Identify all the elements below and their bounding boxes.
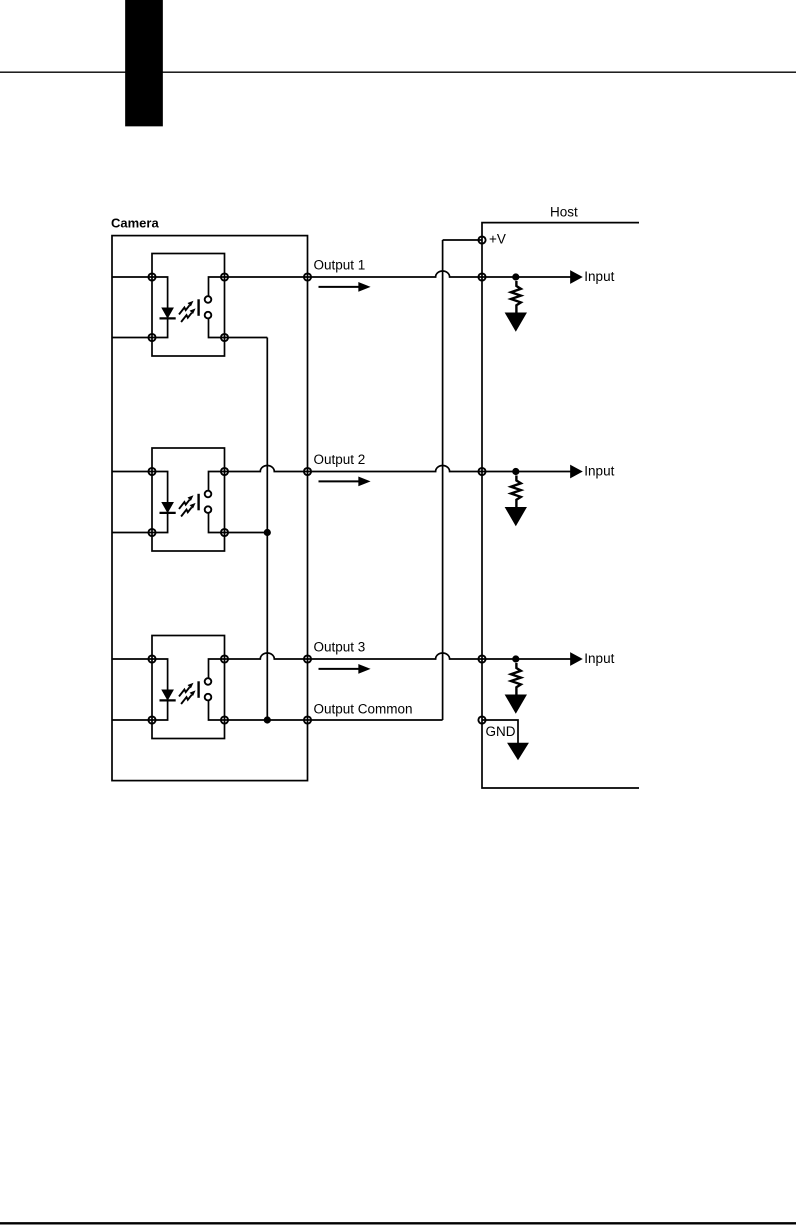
Input 1 arrowhead — [571, 272, 581, 283]
Input 2 arrowhead — [571, 466, 581, 477]
+V bus wire (vertical) — [442, 240, 444, 720]
U1 LED branch wire — [152, 277, 168, 338]
Output 1 signal wire — [225, 271, 573, 277]
Output 1 direction arrow — [319, 286, 361, 288]
svg-text:Output 3: Output 3 — [314, 639, 366, 654]
terminal Output 1 (camera edge) — [304, 273, 311, 280]
U1 photoreceiver bar — [197, 299, 199, 316]
node junction dot row 1 — [512, 273, 519, 280]
U2 LED cathode bar — [160, 512, 176, 514]
ground arrow R3 — [506, 695, 525, 712]
node junction dot common/U3 — [264, 716, 271, 723]
U3 light arrow 1 — [179, 687, 190, 696]
terminal Output 2 (camera edge) — [304, 468, 311, 475]
node junction dot row 2 — [512, 468, 519, 475]
U3 photoreceiver bar — [197, 681, 199, 698]
svg-text:Input: Input — [584, 464, 614, 479]
U3 cathode-side wire (camera edge to pin) — [112, 719, 152, 721]
optocoupler U1 body box — [152, 254, 225, 357]
Output 3 direction arrow — [319, 668, 361, 670]
svg-text:+V: +V — [489, 232, 506, 247]
node junction dot row 3 — [512, 655, 519, 662]
U1 cathode-side wire (camera edge to pin) — [112, 337, 152, 339]
optocoupler U3 body box — [152, 636, 225, 739]
U1 pin terminal left-bottom — [148, 334, 155, 341]
U3 pin terminal right-top — [221, 655, 228, 662]
svg-text:Output 1: Output 1 — [314, 257, 366, 272]
U2 light arrow 1 — [179, 500, 190, 509]
terminal Input 2 (host edge) — [478, 468, 485, 475]
output-common bus wire (vertical) — [266, 338, 268, 721]
U1 LED triangle — [163, 308, 173, 317]
Output Common wire — [225, 719, 443, 721]
U3 contact wire lower — [209, 701, 225, 720]
svg-text:Output 2: Output 2 — [314, 452, 366, 467]
U3 LED triangle — [163, 690, 173, 699]
terminal Output Common (camera edge) — [304, 716, 311, 723]
U1 pin terminal left-top — [148, 273, 155, 280]
U2 LED branch wire — [152, 472, 168, 533]
Output 2 direction arrow — [319, 480, 361, 482]
U2 LED triangle — [163, 503, 173, 512]
resistor R2 — [511, 476, 521, 508]
Output 3 signal wire — [225, 653, 573, 659]
camera enclosure box — [112, 236, 308, 781]
svg-text:Input: Input — [584, 269, 614, 284]
U1 LED cathode bar — [160, 317, 176, 319]
U3 light arrow 2 — [181, 695, 192, 704]
page header rule — [0, 71, 796, 73]
terminal Output 3 (camera edge) — [304, 655, 311, 662]
U1 pin terminal right-top — [221, 273, 228, 280]
U2 pin terminal right-bottom — [221, 529, 228, 536]
U3 contact wire upper — [209, 659, 225, 678]
terminal +V — [478, 236, 485, 243]
U1 contact wire upper — [209, 277, 225, 296]
svg-text:Input: Input — [584, 651, 614, 666]
U2 common wire to bus — [225, 532, 268, 534]
optocoupler U2 body box — [152, 448, 225, 551]
U3 LED branch wire — [152, 659, 168, 720]
U2 pin terminal left-bottom — [148, 529, 155, 536]
svg-text:Camera: Camera — [111, 216, 159, 231]
U2 contact wire lower — [209, 513, 225, 532]
U2 contact circle lower — [205, 506, 212, 513]
svg-text:Host: Host — [550, 205, 578, 220]
ground arrow R1 — [506, 313, 525, 330]
U1 anode wire (camera edge to pin) — [112, 276, 152, 278]
U3 contact circle lower — [205, 694, 212, 701]
U3 contact circle upper — [205, 678, 212, 685]
svg-text:GND: GND — [486, 724, 516, 739]
U3 LED cathode bar — [160, 699, 176, 701]
U1 contact circle upper — [205, 296, 212, 303]
ground arrow R2 — [506, 508, 525, 525]
terminal GND (host edge) — [478, 716, 485, 723]
GND wire — [482, 720, 518, 744]
U2 photoreceiver bar — [197, 494, 199, 511]
ground arrow GND — [509, 744, 528, 759]
U3 pin terminal left-bottom — [148, 716, 155, 723]
terminal Input 1 (host edge) — [478, 273, 485, 280]
U1 light arrow 1 — [179, 305, 190, 314]
resistor R1 — [511, 281, 521, 313]
Input 3 arrowhead — [571, 654, 581, 665]
U3 pin terminal left-top — [148, 655, 155, 662]
U3 anode wire (camera edge to pin) — [112, 658, 152, 660]
U1 pin terminal right-bottom — [221, 334, 228, 341]
U2 contact circle upper — [205, 491, 212, 498]
chapter tab (black rectangle) — [126, 0, 162, 126]
+V stub wire — [443, 239, 482, 241]
U2 cathode-side wire (camera edge to pin) — [112, 532, 152, 534]
resistor R3 — [511, 663, 521, 695]
Output 2 signal wire — [225, 466, 573, 472]
U2 pin terminal left-top — [148, 468, 155, 475]
U2 anode wire (camera edge to pin) — [112, 471, 152, 473]
node junction dot common/U2 — [264, 529, 271, 536]
U1 contact circle lower — [205, 312, 212, 319]
host enclosure outline — [482, 223, 639, 788]
terminal Input 3 (host edge) — [478, 655, 485, 662]
page footer rule — [0, 1222, 796, 1224]
U2 pin terminal right-top — [221, 468, 228, 475]
U2 contact wire upper — [209, 472, 225, 491]
svg-text:Output Common: Output Common — [314, 701, 413, 716]
U1 common wire to bus — [225, 337, 268, 339]
U1 contact wire lower — [209, 319, 225, 338]
U2 light arrow 2 — [181, 507, 192, 516]
U3 pin terminal right-bottom — [221, 716, 228, 723]
U1 light arrow 2 — [181, 313, 192, 322]
